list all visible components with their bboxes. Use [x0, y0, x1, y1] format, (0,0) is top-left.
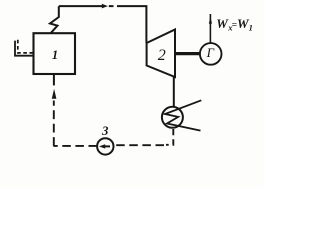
generator circle: [200, 43, 222, 65]
svg-text:1: 1: [52, 48, 58, 62]
arrow feedwater up: [52, 89, 57, 99]
condenser circle: [162, 107, 183, 128]
arrow steam flow right: [102, 4, 108, 9]
fuel inlet solid L: [15, 41, 34, 56]
wire generator power output: [209, 14, 211, 43]
svg-text:2: 2: [158, 47, 166, 64]
pump arrow (flow left): [103, 145, 111, 147]
wire feedwater up to boiler (dashed with corner): [53, 101, 55, 146]
arrow power output up: [209, 17, 212, 24]
boiler box 1: [34, 33, 76, 74]
cooling water zigzag through condenser: [165, 100, 201, 130]
svg-text:3: 3: [101, 124, 108, 138]
wire bottom dashed condenser to pump: [114, 144, 164, 146]
shaft turbine to generator: [175, 52, 200, 55]
wire stub below boiler: [53, 74, 55, 85]
pump 3 circle: [97, 138, 113, 154]
wire pump to left corner (dashed): [53, 145, 97, 147]
svg-text:1: 1: [249, 23, 253, 33]
svg-text:Г: Г: [206, 45, 215, 60]
turbine 2: [147, 30, 175, 78]
wire steam line boiler to turbine (top): [59, 5, 102, 7]
wire turbine exhaust to condenser: [173, 77, 175, 108]
wire condenser to bottom corner (dashed): [166, 129, 173, 145]
air inlet dashed L: [18, 40, 34, 53]
break symbol (bolt) on boiler steam outlet: [50, 6, 59, 33]
